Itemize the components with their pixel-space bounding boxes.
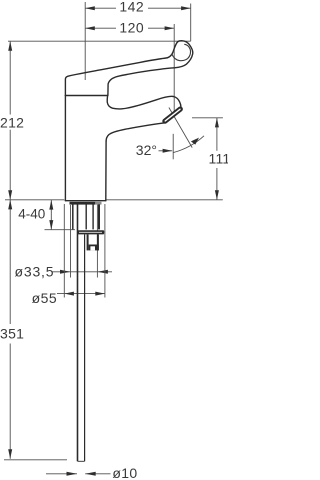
extension lines o33,5	[70, 205, 72, 278]
mounting deck line left	[5, 199, 64, 201]
mounting deck line right	[106, 199, 223, 201]
reference line deck bottom	[45, 229, 76, 231]
angle 32 deg leader arrow	[159, 149, 173, 153]
aerator capsule	[165, 109, 180, 121]
dimension 4-40 line	[49, 200, 53, 230]
copper pipe left wall	[77, 204, 79, 461]
svg-text:351: 351	[0, 326, 24, 342]
svg-text:32°: 32°	[136, 142, 157, 158]
reference line pipe end	[4, 459, 67, 461]
dimension o33,5 line	[52, 270, 112, 274]
body bottom edge	[65, 200, 105, 202]
hose left wall	[85, 204, 87, 229]
flow direction line	[169, 108, 192, 148]
extension line left (centre axis)	[84, 2, 86, 80]
dimension 212 line	[8, 41, 12, 200]
shank outer right wall	[98, 204, 100, 229]
shank and pipes below base	[73, 204, 99, 461]
extension line 120 right (to aerator)	[173, 24, 175, 114]
dimension 120 line	[85, 26, 174, 30]
reference line aerator level	[192, 117, 223, 119]
svg-text:212: 212	[0, 114, 24, 130]
dimension o55 line	[57, 292, 105, 296]
washer plate	[77, 230, 104, 234]
body right edge upper and spout top edge	[107, 96, 181, 109]
hook inner curl line	[172, 44, 190, 60]
angle arc with arrowhead	[173, 136, 204, 153]
spout under edge	[106, 123, 164, 141]
svg-text:ø33,5: ø33,5	[15, 264, 55, 280]
dimension 142 line	[85, 6, 191, 10]
copper pipe right wall	[84, 234, 86, 461]
dimension 111 line	[215, 118, 219, 200]
body right edge lower	[105, 141, 107, 201]
extension lines o55	[63, 204, 65, 298]
spout outlet face	[164, 109, 181, 123]
svg-text:4-40: 4-40	[18, 207, 45, 222]
svg-text:142: 142	[119, 0, 144, 15]
pipe end cap	[78, 460, 85, 462]
extension line 142 right	[190, 4, 192, 42]
svg-text:120: 120	[119, 19, 144, 35]
top reference line (lever top level)	[8, 40, 191, 42]
svg-text:ø10: ø10	[112, 465, 137, 480]
svg-text:111: 111	[209, 151, 229, 167]
shank outer left wall	[72, 204, 74, 229]
body left edge	[64, 96, 66, 201]
svg-text:ø55: ø55	[32, 290, 58, 306]
dimension 351 line	[8, 200, 12, 459]
dimension o10 line	[46, 472, 111, 476]
hose connector fitting	[88, 234, 99, 250]
angle vertical reference line	[172, 134, 174, 160]
lever handle outline	[65, 41, 192, 96]
body cap seam	[65, 95, 107, 97]
base gasket	[70, 202, 102, 205]
hose inner line	[92, 204, 94, 229]
